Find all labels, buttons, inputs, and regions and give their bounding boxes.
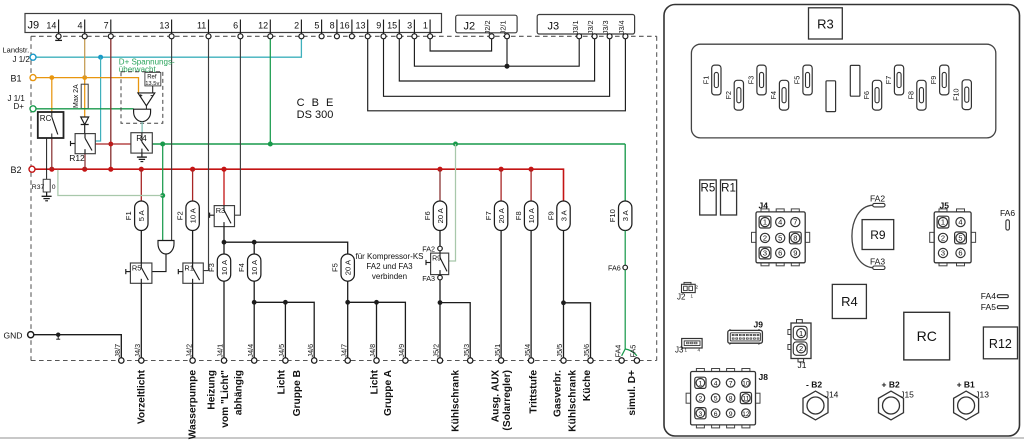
svg-text:F1: F1: [124, 211, 133, 220]
svg-text:J9: J9: [754, 320, 764, 330]
svg-text:J8: J8: [759, 372, 769, 382]
svg-text:Ref: Ref: [147, 75, 157, 81]
svg-text:14: 14: [46, 20, 56, 30]
svg-text:5: 5: [714, 396, 718, 403]
svg-text:12: 12: [742, 411, 750, 418]
svg-text:J3/1: J3/1: [571, 20, 580, 34]
svg-text:1: 1: [699, 380, 703, 387]
svg-text:J8/7: J8/7: [113, 344, 122, 358]
svg-text:0: 0: [52, 184, 56, 191]
svg-text:5: 5: [958, 234, 962, 243]
svg-text:Licht: Licht: [276, 369, 287, 394]
svg-text:J5/4: J5/4: [523, 344, 532, 358]
svg-text:F10: F10: [608, 209, 617, 222]
svg-text:J5/6: J5/6: [582, 344, 591, 358]
svg-text:FA3: FA3: [422, 274, 435, 283]
svg-text:1: 1: [423, 20, 428, 30]
svg-text:FA3: FA3: [870, 256, 885, 266]
svg-text:J2: J2: [464, 21, 476, 33]
svg-text:2: 2: [763, 234, 767, 243]
svg-text:Gasverbr.: Gasverbr.: [552, 370, 563, 417]
svg-text:5: 5: [778, 234, 782, 243]
svg-text:Gruppe B: Gruppe B: [292, 370, 303, 416]
svg-text:B2: B2: [11, 165, 22, 175]
svg-text:20 A: 20 A: [344, 259, 353, 275]
svg-text:Wasserpumpe: Wasserpumpe: [187, 370, 198, 440]
svg-text:J1: J1: [798, 360, 807, 370]
svg-text:J3: J3: [675, 346, 684, 355]
svg-text:J14: J14: [825, 389, 839, 399]
svg-text:9: 9: [793, 249, 797, 258]
svg-text:3 A: 3 A: [559, 209, 568, 221]
svg-text:10: 10: [742, 380, 750, 387]
svg-text:J3/2: J3/2: [586, 20, 595, 34]
svg-text:J2/1: J2/1: [499, 20, 508, 34]
svg-text:12: 12: [258, 20, 268, 30]
svg-text:B1: B1: [11, 73, 22, 83]
svg-text:J5/5: J5/5: [555, 344, 564, 358]
svg-text:Licht: Licht: [369, 369, 380, 394]
svg-text:J4/1: J4/1: [216, 344, 225, 358]
svg-text:20 A: 20 A: [436, 207, 445, 223]
svg-text:Kühlschrank: Kühlschrank: [450, 370, 461, 432]
svg-text:FA2: FA2: [422, 245, 435, 254]
svg-text:simul. D+: simul. D+: [627, 370, 638, 416]
svg-text:4: 4: [714, 380, 718, 387]
svg-text:J4/4: J4/4: [246, 344, 255, 358]
svg-text:Max 2A: Max 2A: [73, 84, 80, 108]
svg-text:FA5: FA5: [981, 302, 996, 312]
svg-text:vom "Licht": vom "Licht": [220, 370, 231, 428]
svg-text:+ B1: + B1: [957, 379, 975, 389]
svg-text:J5/3: J5/3: [462, 344, 471, 358]
svg-text:6: 6: [233, 20, 238, 30]
svg-text:FA4: FA4: [981, 291, 996, 301]
svg-text:5 A: 5 A: [137, 209, 146, 221]
svg-text:(Solarregler): (Solarregler): [502, 370, 513, 431]
svg-text:RC: RC: [40, 114, 52, 123]
svg-text:J4/8: J4/8: [368, 344, 377, 358]
svg-text:5: 5: [314, 20, 319, 30]
svg-text:R4: R4: [841, 294, 858, 309]
svg-text:C B E: C B E: [297, 97, 336, 109]
svg-text:verbinden: verbinden: [372, 272, 407, 281]
svg-text:J13: J13: [975, 389, 989, 399]
svg-text:F8: F8: [906, 91, 915, 99]
svg-text:Trittstufe: Trittstufe: [528, 370, 539, 414]
svg-text:J3: J3: [548, 21, 560, 33]
svg-text:8: 8: [729, 396, 733, 403]
svg-text:F2: F2: [724, 91, 733, 99]
svg-text:F3: F3: [207, 263, 216, 272]
svg-text:- B2: - B2: [806, 379, 822, 389]
svg-text:7: 7: [104, 20, 109, 30]
svg-text:10 A: 10 A: [220, 259, 229, 275]
svg-text:R3: R3: [216, 206, 225, 215]
svg-text:F2: F2: [176, 211, 185, 220]
svg-text:J 1/2: J 1/2: [13, 55, 31, 64]
svg-text:F9: F9: [929, 76, 938, 84]
svg-text:J5: J5: [940, 201, 950, 211]
svg-text:1: 1: [763, 218, 767, 227]
svg-text:Kühlschrank: Kühlschrank: [567, 370, 578, 432]
svg-text:10 A: 10 A: [527, 207, 536, 223]
svg-text:F7: F7: [484, 211, 493, 220]
svg-text:R1: R1: [184, 263, 193, 272]
svg-text:R1: R1: [721, 183, 736, 195]
svg-text:J4/9: J4/9: [397, 344, 406, 358]
svg-text:F10: F10: [952, 89, 961, 101]
svg-text:Heizung: Heizung: [206, 370, 217, 410]
svg-text:F1: F1: [701, 76, 710, 84]
svg-text:J4/2: J4/2: [184, 344, 193, 358]
svg-text:F5: F5: [331, 263, 340, 272]
svg-text:J2/2: J2/2: [483, 20, 492, 34]
svg-text:Küche: Küche: [582, 370, 593, 401]
svg-text:F9: F9: [546, 211, 555, 220]
svg-text:6: 6: [958, 249, 962, 258]
svg-text:J3/4: J3/4: [617, 20, 626, 34]
svg-text:FA6: FA6: [608, 264, 621, 273]
svg-text:Vorzeltlicht: Vorzeltlicht: [136, 369, 147, 424]
svg-text:3 A: 3 A: [621, 209, 630, 221]
svg-text:abhängig: abhängig: [233, 370, 244, 415]
svg-text:2: 2: [799, 344, 803, 353]
svg-text:F5: F5: [793, 76, 802, 84]
svg-text:4: 4: [958, 218, 962, 227]
svg-text:3: 3: [763, 249, 767, 258]
svg-text:6: 6: [714, 411, 718, 418]
svg-text:15: 15: [387, 20, 397, 30]
svg-text:R12: R12: [989, 337, 1012, 351]
svg-text:F3: F3: [747, 76, 756, 84]
svg-text:J5/1: J5/1: [493, 344, 502, 358]
svg-text:J4: J4: [759, 201, 769, 211]
svg-text:3: 3: [699, 411, 703, 418]
svg-text:7: 7: [729, 380, 733, 387]
svg-text:2: 2: [699, 396, 703, 403]
svg-text:F4: F4: [237, 263, 246, 272]
svg-text:Ausg. AUX: Ausg. AUX: [490, 370, 501, 422]
svg-text:FA2: FA2: [870, 194, 885, 204]
svg-text:FA5: FA5: [629, 345, 638, 358]
svg-text:F4: F4: [769, 91, 778, 99]
svg-text:R5: R5: [701, 183, 716, 195]
svg-text:11: 11: [197, 20, 206, 30]
svg-text:3: 3: [407, 20, 412, 30]
svg-text:J3/3: J3/3: [601, 20, 610, 34]
svg-text:+ B2: + B2: [882, 379, 900, 389]
svg-text:1: 1: [941, 218, 945, 227]
svg-text:8: 8: [793, 234, 797, 243]
svg-text:R5: R5: [132, 263, 141, 272]
svg-text:3: 3: [941, 249, 945, 258]
svg-text:1: 1: [799, 329, 803, 338]
svg-text:FA4: FA4: [613, 345, 622, 358]
svg-text:J4/7: J4/7: [339, 344, 348, 358]
svg-text:J4/5: J4/5: [277, 344, 286, 358]
svg-text:J2: J2: [677, 293, 686, 302]
svg-text:2: 2: [941, 234, 945, 243]
svg-text:DS 300: DS 300: [297, 109, 334, 121]
svg-text:13: 13: [355, 20, 365, 30]
svg-text:FA6: FA6: [1000, 208, 1015, 218]
svg-text:Gruppe A: Gruppe A: [383, 369, 394, 416]
svg-text:R12: R12: [69, 153, 85, 163]
svg-text:GND: GND: [4, 330, 23, 340]
svg-text:J5/2: J5/2: [432, 344, 441, 358]
svg-text:RC: RC: [917, 328, 937, 344]
svg-text:10 A: 10 A: [188, 207, 197, 223]
svg-text:7: 7: [793, 218, 797, 227]
svg-text:F7: F7: [884, 76, 893, 84]
svg-text:11: 11: [742, 396, 749, 403]
svg-text:für Kompressor-KS: für Kompressor-KS: [355, 252, 423, 261]
svg-text:F6: F6: [423, 211, 432, 220]
svg-text:10 A: 10 A: [250, 259, 259, 275]
svg-text:J4/3: J4/3: [133, 344, 142, 358]
svg-text:9: 9: [729, 411, 733, 418]
svg-text:J4/6: J4/6: [306, 344, 315, 358]
svg-text:R9: R9: [870, 228, 886, 242]
svg-text:R3: R3: [817, 16, 834, 31]
svg-text:2: 2: [294, 20, 299, 30]
svg-text:F8: F8: [514, 211, 523, 220]
svg-text:20 A: 20 A: [497, 207, 506, 223]
svg-text:Landstr.: Landstr.: [3, 45, 30, 54]
svg-text:16: 16: [340, 20, 350, 30]
svg-text:F6: F6: [862, 91, 871, 99]
svg-text:J9: J9: [28, 19, 40, 31]
svg-text:9: 9: [376, 20, 381, 30]
svg-text:FA2 und FA3: FA2 und FA3: [366, 262, 413, 271]
svg-text:J15: J15: [900, 389, 914, 399]
svg-text:R9: R9: [432, 256, 441, 263]
svg-text:R37: R37: [32, 184, 45, 191]
svg-text:D+: D+: [14, 102, 25, 111]
svg-text:8: 8: [330, 20, 335, 30]
svg-text:6: 6: [778, 249, 782, 258]
svg-text:4: 4: [77, 20, 82, 30]
svg-text:13: 13: [159, 20, 169, 30]
svg-text:4: 4: [778, 218, 782, 227]
